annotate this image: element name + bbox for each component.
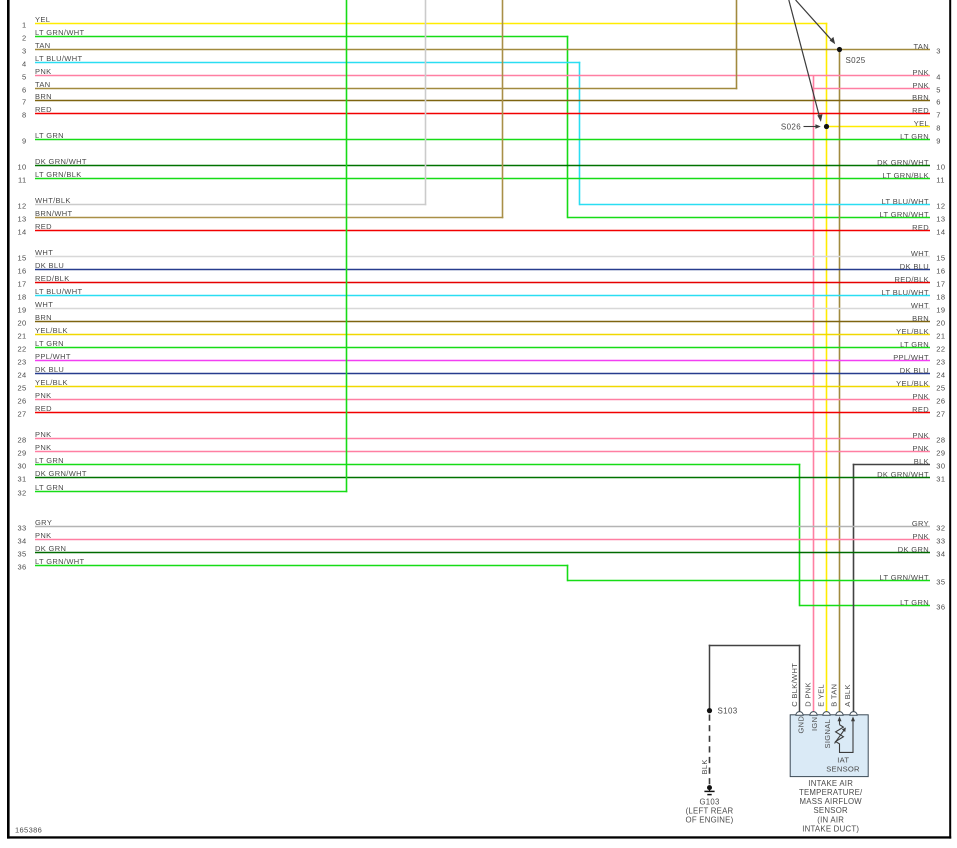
svg-text:32: 32 <box>936 524 945 533</box>
svg-text:22: 22 <box>17 345 26 354</box>
pin label E YEL <box>816 684 825 707</box>
wire PNK pin 26 to right pin 26 <box>17 391 945 406</box>
svg-text:4: 4 <box>22 60 27 69</box>
svg-text:28: 28 <box>17 436 26 445</box>
svg-text:RED: RED <box>912 106 929 115</box>
svg-text:E YEL: E YEL <box>816 684 825 707</box>
svg-text:17: 17 <box>17 280 26 289</box>
svg-text:B TAN: B TAN <box>829 684 838 707</box>
wire PNK branch to right pin 5 <box>814 81 941 95</box>
svg-text:S103: S103 <box>718 706 738 715</box>
svg-text:10: 10 <box>936 163 945 172</box>
svg-text:165386: 165386 <box>15 826 42 835</box>
svg-text:5: 5 <box>22 73 27 82</box>
svg-text:TAN: TAN <box>35 80 51 89</box>
wire LT GRN pin 32 horizontal <box>17 483 347 498</box>
svg-text:LT GRN: LT GRN <box>35 131 64 140</box>
wire LT GRN pin 22 to right pin 22 <box>17 339 945 354</box>
terminal label GND <box>796 716 805 734</box>
svg-text:BRN: BRN <box>35 313 52 322</box>
IAT connector cavity pin C <box>796 712 803 716</box>
svg-text:PNK: PNK <box>35 391 51 400</box>
caption INTAKE AIR TEMPERATURE MASS AIRFLOW SENSOR <box>799 779 863 834</box>
thermistor IAT sensing element <box>835 716 856 752</box>
svg-text:19: 19 <box>17 306 26 315</box>
svg-text:8: 8 <box>936 124 941 133</box>
pin label C BLK/WHT <box>790 663 799 707</box>
svg-text:17: 17 <box>936 280 945 289</box>
svg-text:8: 8 <box>22 111 27 120</box>
wire DK GRN/WHT pin 31 to right pin 31 <box>17 469 945 484</box>
wire LT GRN/WHT pin 2 horizontal <box>22 28 568 43</box>
pin label A BLK <box>843 684 852 707</box>
svg-text:BRN: BRN <box>35 92 52 101</box>
ground G103 <box>704 785 714 795</box>
svg-text:10: 10 <box>17 163 26 172</box>
svg-text:LT GRN: LT GRN <box>35 483 64 492</box>
svg-text:RED: RED <box>912 405 929 414</box>
wire WHT/BLK pin 12 horizontal <box>17 196 426 211</box>
svg-text:7: 7 <box>936 111 941 120</box>
svg-text:29: 29 <box>17 449 26 458</box>
svg-text:2: 2 <box>22 34 27 43</box>
svg-text:31: 31 <box>17 475 26 484</box>
svg-text:GRY: GRY <box>912 519 929 528</box>
wire WHT/BLK vertical to top <box>425 0 427 205</box>
wire PNK pin 29 to right pin 29 <box>17 443 945 458</box>
svg-text:PNK: PNK <box>913 392 929 401</box>
wire WHT pin 15 to right pin 15 <box>17 248 945 263</box>
svg-text:36: 36 <box>936 603 945 612</box>
svg-text:WHT/BLK: WHT/BLK <box>35 196 71 205</box>
arrow from top to splice S025 <box>796 0 836 44</box>
svg-text:DK GRN/WHT: DK GRN/WHT <box>35 157 87 166</box>
svg-text:YEL/BLK: YEL/BLK <box>896 327 929 336</box>
svg-text:PNK: PNK <box>913 431 929 440</box>
svg-text:WHT: WHT <box>35 300 53 309</box>
wire BLK vertical to IAT pin A <box>853 464 855 712</box>
wire DK GRN/WHT pin 10 to right pin 10 <box>17 157 945 172</box>
label 165386 page id <box>15 826 42 835</box>
svg-text:TAN: TAN <box>35 41 51 50</box>
svg-text:S026: S026 <box>781 123 801 132</box>
svg-text:28: 28 <box>936 436 945 445</box>
wire RED pin 14 to right pin 14 <box>17 222 945 237</box>
svg-text:LT GRN/WHT: LT GRN/WHT <box>35 28 85 37</box>
svg-text:3: 3 <box>936 47 941 56</box>
svg-text:16: 16 <box>17 267 26 276</box>
svg-text:34: 34 <box>17 537 26 546</box>
svg-text:30: 30 <box>936 462 945 471</box>
svg-text:RED/BLK: RED/BLK <box>35 274 70 283</box>
svg-text:RED: RED <box>35 404 52 413</box>
svg-text:21: 21 <box>17 332 26 341</box>
svg-text:13: 13 <box>936 215 945 224</box>
svg-text:IAT: IAT <box>837 756 849 765</box>
svg-text:25: 25 <box>936 384 945 393</box>
svg-text:LT GRN: LT GRN <box>900 340 929 349</box>
wire TAN vertical S025 to IAT pin B <box>839 50 841 712</box>
svg-text:PNK: PNK <box>35 443 51 452</box>
svg-text:20: 20 <box>17 319 26 328</box>
svg-text:PNK: PNK <box>35 67 51 76</box>
svg-text:PPL/WHT: PPL/WHT <box>893 353 929 362</box>
connector IAT sensor box <box>790 715 868 777</box>
svg-text:BRN: BRN <box>912 93 929 102</box>
wire DK GRN pin 35 to right pin 34 <box>17 544 945 559</box>
svg-text:26: 26 <box>936 397 945 406</box>
svg-text:RED/BLK: RED/BLK <box>894 275 929 284</box>
svg-text:23: 23 <box>936 358 945 367</box>
svg-text:RED: RED <box>912 223 929 232</box>
wire YEL pin 1 horizontal <box>22 15 827 30</box>
svg-text:11: 11 <box>18 176 27 185</box>
wire LT GRN/WHT to right pin 35 <box>568 573 946 587</box>
svg-text:12: 12 <box>936 202 945 211</box>
svg-text:BLK: BLK <box>914 457 929 466</box>
svg-text:GRY: GRY <box>35 518 52 527</box>
svg-text:32: 32 <box>17 489 26 498</box>
svg-text:IGN: IGN <box>810 717 819 731</box>
wire RED pin 27 to right pin 27 <box>17 404 945 419</box>
svg-text:20: 20 <box>936 319 945 328</box>
svg-text:LT GRN: LT GRN <box>35 339 64 348</box>
wire LT GRN/WHT pin 36 horizontal <box>17 557 568 572</box>
svg-text:11: 11 <box>936 176 945 185</box>
svg-text:18: 18 <box>17 293 26 302</box>
svg-text:TAN: TAN <box>914 42 930 51</box>
svg-text:15: 15 <box>936 254 945 263</box>
wire GRY pin 33 to right pin 32 <box>17 518 945 533</box>
wire BRN pin 20 to right pin 20 <box>17 313 945 328</box>
wire YEL/BLK pin 21 to right pin 21 <box>17 326 945 341</box>
svg-text:12: 12 <box>17 202 26 211</box>
svg-text:YEL/BLK: YEL/BLK <box>35 326 68 335</box>
svg-text:25: 25 <box>17 384 26 393</box>
wire LT GRN/WHT to right pin 13 <box>568 210 946 224</box>
svg-text:27: 27 <box>936 410 945 419</box>
svg-text:4: 4 <box>936 73 941 82</box>
svg-text:24: 24 <box>17 371 26 380</box>
wire LT GRN/WHT vertical jog <box>567 36 569 219</box>
IAT connector cavity pin D <box>810 712 817 716</box>
svg-text:D PNK: D PNK <box>803 682 812 707</box>
svg-text:LT GRN/WHT: LT GRN/WHT <box>880 573 930 582</box>
svg-text:BRN/WHT: BRN/WHT <box>35 209 73 218</box>
svg-text:6: 6 <box>936 98 941 107</box>
svg-text:LT BLU/WHT: LT BLU/WHT <box>882 288 929 297</box>
svg-text:5: 5 <box>936 86 941 95</box>
svg-text:34: 34 <box>936 550 945 559</box>
wire DK BLU pin 16 to right pin 16 <box>17 261 945 276</box>
svg-text:PNK: PNK <box>913 68 929 77</box>
svg-text:GND: GND <box>796 716 805 734</box>
wire YEL/BLK pin 25 to right pin 25 <box>17 378 945 393</box>
wire PNK vertical branch to IAT pin D <box>813 76 815 712</box>
svg-text:DK BLU: DK BLU <box>35 365 64 374</box>
wire TAN pin 3 to right pin 3 <box>22 41 941 56</box>
svg-text:BRN: BRN <box>912 314 929 323</box>
IAT connector cavity pin B <box>836 712 843 716</box>
wire BRN/WHT vertical to top <box>502 0 504 218</box>
svg-text:14: 14 <box>936 228 945 237</box>
arrow from top to splice S026 <box>789 0 823 122</box>
splice S026 <box>781 123 829 132</box>
svg-text:INTAKE DUCT): INTAKE DUCT) <box>802 824 859 833</box>
svg-text:LT GRN/WHT: LT GRN/WHT <box>880 210 930 219</box>
svg-text:26: 26 <box>17 397 26 406</box>
svg-text:31: 31 <box>936 475 945 484</box>
wire LT GRN to right pin 36 <box>800 598 946 612</box>
svg-text:DK GRN/WHT: DK GRN/WHT <box>877 158 929 167</box>
IAT connector cavity pin E <box>823 712 830 716</box>
svg-text:YEL: YEL <box>914 119 929 128</box>
wire PNK pin 34 to right pin 33 <box>17 531 945 546</box>
pin label B TAN <box>829 684 838 707</box>
svg-text:6: 6 <box>22 86 27 95</box>
wire BRN/WHT pin 13 horizontal <box>17 209 503 224</box>
wire PNK pin 28 to right pin 28 <box>17 430 945 445</box>
svg-text:1: 1 <box>22 21 27 30</box>
wire LT GRN vertical to top <box>346 0 348 492</box>
terminal label SIGNAL <box>823 719 832 749</box>
svg-text:(LEFT REAR: (LEFT REAR <box>686 806 734 815</box>
wire LT BLU/WHT pin 18 to right pin 18 <box>17 287 945 302</box>
svg-text:22: 22 <box>936 345 945 354</box>
svg-text:OF ENGINE): OF ENGINE) <box>686 815 734 824</box>
wire RED pin 8 to right pin 7 <box>22 105 941 120</box>
svg-text:DK GRN: DK GRN <box>35 544 66 553</box>
svg-text:24: 24 <box>936 371 945 380</box>
svg-text:18: 18 <box>936 293 945 302</box>
wire LT GRN pin 9 to right pin 9 <box>22 131 941 146</box>
svg-text:SIGNAL: SIGNAL <box>823 719 832 749</box>
svg-text:33: 33 <box>936 537 945 546</box>
svg-text:BLK: BLK <box>700 759 709 774</box>
svg-text:30: 30 <box>17 462 26 471</box>
svg-text:DK BLU: DK BLU <box>900 366 929 375</box>
svg-text:7: 7 <box>22 98 27 107</box>
svg-text:SENSOR: SENSOR <box>826 764 860 773</box>
svg-text:PNK: PNK <box>35 430 51 439</box>
svg-text:A BLK: A BLK <box>843 684 852 707</box>
svg-text:33: 33 <box>17 524 26 533</box>
svg-text:16: 16 <box>936 267 945 276</box>
svg-text:35: 35 <box>936 578 945 587</box>
svg-text:14: 14 <box>17 228 26 237</box>
svg-text:LT BLU/WHT: LT BLU/WHT <box>35 287 82 296</box>
svg-text:LT GRN: LT GRN <box>900 598 929 607</box>
svg-text:RED: RED <box>35 105 52 114</box>
svg-text:35: 35 <box>17 550 26 559</box>
svg-text:LT GRN/WHT: LT GRN/WHT <box>35 557 85 566</box>
wire BLK/WHT S103 up and over to IAT pin C <box>709 645 801 712</box>
svg-text:MASS AIRFLOW: MASS AIRFLOW <box>800 797 863 806</box>
svg-text:G103: G103 <box>699 797 719 806</box>
svg-text:DK BLU: DK BLU <box>900 262 929 271</box>
wire YEL vertical from pin 1 corner through S026 to IAT pin E <box>826 23 828 712</box>
svg-text:29: 29 <box>936 449 945 458</box>
svg-text:C BLK/WHT: C BLK/WHT <box>790 663 799 707</box>
wire RED/BLK pin 17 to right pin 17 <box>17 274 945 289</box>
svg-text:LT GRN/BLK: LT GRN/BLK <box>882 171 929 180</box>
svg-text:LT GRN: LT GRN <box>35 456 64 465</box>
svg-text:PPL/WHT: PPL/WHT <box>35 352 71 361</box>
svg-text:YEL: YEL <box>35 15 50 24</box>
wire BLK right pin 30 horizontal <box>853 457 946 471</box>
wire LT GRN pin 30 horizontal <box>17 456 800 471</box>
wire TAN pin 6 horizontal <box>22 80 737 95</box>
wire PPL/WHT pin 23 to right pin 23 <box>17 352 945 367</box>
svg-text:13: 13 <box>17 215 26 224</box>
label G103 LEFT REAR OF ENGINE <box>686 797 734 824</box>
svg-text:LT BLU/WHT: LT BLU/WHT <box>35 54 82 63</box>
wire LT GRN/BLK pin 11 to right pin 11 <box>18 170 945 185</box>
svg-text:WHT: WHT <box>911 249 929 258</box>
label IAT SENSOR <box>826 756 860 774</box>
wire WHT pin 19 to right pin 19 <box>17 300 945 315</box>
wire YEL S026 to right pin 8 <box>827 119 941 133</box>
svg-text:DK GRN: DK GRN <box>898 545 929 554</box>
svg-text:PNK: PNK <box>913 532 929 541</box>
svg-text:SENSOR: SENSOR <box>813 806 848 815</box>
svg-text:WHT: WHT <box>911 301 929 310</box>
svg-text:36: 36 <box>17 563 26 572</box>
svg-text:21: 21 <box>936 332 945 341</box>
wire TAN vertical to top <box>736 0 738 89</box>
svg-text:DK GRN/WHT: DK GRN/WHT <box>877 470 929 479</box>
svg-text:PNK: PNK <box>913 444 929 453</box>
svg-text:S025: S025 <box>846 56 866 65</box>
svg-text:TEMPERATURE/: TEMPERATURE/ <box>799 788 863 797</box>
splice S103 <box>707 706 738 715</box>
svg-text:INTAKE AIR: INTAKE AIR <box>808 779 853 788</box>
svg-text:15: 15 <box>17 254 26 263</box>
svg-text:LT GRN/BLK: LT GRN/BLK <box>35 170 82 179</box>
wire PNK pin 5 to right pin 4 <box>22 67 941 82</box>
svg-text:RED: RED <box>35 222 52 231</box>
svg-text:YEL/BLK: YEL/BLK <box>35 378 68 387</box>
pin label D PNK <box>803 682 812 707</box>
wire LT BLU/WHT pin 4 horizontal <box>22 54 580 69</box>
wire LT GRN vertical jog down <box>799 464 801 607</box>
svg-text:9: 9 <box>936 137 941 146</box>
svg-text:DK GRN/WHT: DK GRN/WHT <box>35 469 87 478</box>
svg-text:19: 19 <box>936 306 945 315</box>
svg-text:LT BLU/WHT: LT BLU/WHT <box>882 197 929 206</box>
svg-text:WHT: WHT <box>35 248 53 257</box>
wire LT BLU/WHT vertical jog <box>579 62 581 206</box>
svg-text:LT GRN: LT GRN <box>900 132 929 141</box>
svg-text:9: 9 <box>22 137 27 146</box>
svg-text:YEL/BLK: YEL/BLK <box>896 379 929 388</box>
wire LT GRN/WHT vertical jog <box>567 565 569 582</box>
svg-text:(IN AIR: (IN AIR <box>817 815 844 824</box>
wire DK BLU pin 24 to right pin 24 <box>17 365 945 380</box>
terminal label IGN <box>810 717 819 731</box>
splice S025 <box>837 47 866 65</box>
svg-text:PNK: PNK <box>35 531 51 540</box>
svg-text:DK BLU: DK BLU <box>35 261 64 270</box>
IAT connector cavity pin A <box>850 712 857 716</box>
wire LT BLU/WHT to right pin 12 <box>580 197 946 211</box>
wire BRN pin 7 to right pin 6 <box>22 92 941 107</box>
svg-text:3: 3 <box>22 47 27 56</box>
svg-text:PNK: PNK <box>913 81 929 90</box>
svg-text:23: 23 <box>17 358 26 367</box>
svg-text:27: 27 <box>17 410 26 419</box>
wire BLK S103 to G103 dashed <box>700 715 710 785</box>
